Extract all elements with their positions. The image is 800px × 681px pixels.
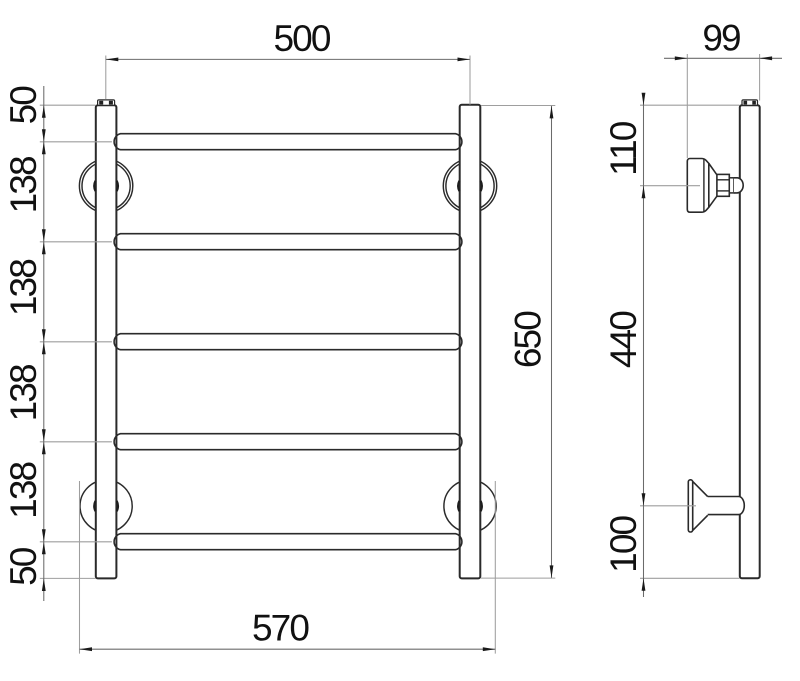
bracket collar crescents bottom-right: [458, 501, 482, 511]
svg-text:650: 650: [508, 311, 549, 368]
svg-text:570: 570: [252, 608, 309, 649]
svg-text:440: 440: [603, 311, 644, 368]
svg-text:138: 138: [3, 462, 44, 518]
mount circle bottom-right: [444, 480, 496, 532]
svg-text:50: 50: [3, 547, 44, 586]
upper bracket cylinder: [729, 178, 734, 193]
mount circle bottom-left: [80, 480, 132, 532]
bracket collar crescents bottom-left: [94, 501, 118, 511]
svg-text:138: 138: [3, 365, 44, 421]
left dimension chain line: [42, 86, 46, 601]
bar 2: [114, 234, 462, 250]
air-vent cap on left post: [98, 100, 115, 105]
svg-text:100: 100: [603, 515, 644, 572]
lower bracket cone: [693, 481, 708, 530]
side dimension chain line: [642, 93, 646, 597]
right post: [460, 105, 481, 579]
upper wall bracket flange (side view): [687, 159, 709, 213]
left post: [96, 105, 117, 578]
mount circle top-right (double ring): [443, 159, 496, 212]
air-vent cap on side post: [742, 100, 758, 105]
extension lines: [40, 54, 760, 654]
svg-text:500: 500: [273, 18, 330, 59]
svg-text:138: 138: [3, 260, 44, 316]
svg-text:99: 99: [702, 18, 740, 59]
upper bracket dome: [734, 178, 743, 193]
upper bracket nut: [717, 174, 729, 196]
dimension 99 line: [664, 56, 782, 60]
svg-text:50: 50: [3, 86, 44, 125]
bar 5: [114, 534, 462, 550]
bracket collar crescents top-right: [458, 181, 482, 191]
bar 3: [114, 334, 462, 350]
bar 1: [114, 134, 462, 150]
side view post: [740, 105, 760, 578]
dimension 650 line: [550, 106, 554, 578]
mount circle top-left (double ring): [79, 159, 132, 212]
bar 4: [114, 434, 462, 450]
dimension 500 line: [106, 58, 470, 62]
upper bracket cone: [709, 163, 717, 207]
dimension 570 line: [80, 647, 496, 651]
svg-text:138: 138: [3, 157, 44, 213]
bracket collar crescents top-left: [94, 181, 118, 191]
svg-text:110: 110: [603, 121, 644, 176]
lower wall bracket plate (side view): [688, 480, 692, 532]
lower bracket stem and dome: [708, 497, 745, 515]
